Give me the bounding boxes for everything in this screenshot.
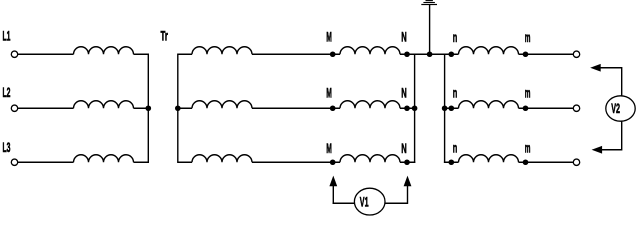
wire star-point bus xyxy=(147,54,149,163)
ground xyxy=(421,1,437,55)
inductor L2 line winding xyxy=(74,101,134,108)
svg-text:M: M xyxy=(326,29,332,45)
terminal L2 xyxy=(11,105,17,111)
svg-text:N: N xyxy=(401,140,407,156)
wire xyxy=(400,107,415,109)
transformer Tr winding phase 2 xyxy=(192,101,252,108)
transformer Tr tapped section M-N phase 1 xyxy=(340,47,400,55)
svg-text:M: M xyxy=(326,140,332,156)
node N phase 2 xyxy=(404,105,410,111)
inductor L3 line winding xyxy=(74,155,134,162)
node m phase 2 xyxy=(523,105,529,111)
wire N bus xyxy=(414,54,416,163)
wire xyxy=(407,186,409,204)
inductor secondary winding n-m phase 1 xyxy=(459,47,519,55)
svg-text:m: m xyxy=(525,140,531,156)
svg-text:n: n xyxy=(453,29,458,45)
wire xyxy=(519,107,574,109)
svg-text:L2: L2 xyxy=(3,84,11,100)
wire xyxy=(444,161,459,163)
svg-text:n: n xyxy=(453,140,458,156)
svg-text:m: m xyxy=(525,29,531,45)
wire xyxy=(333,202,408,204)
voltmeter V2 xyxy=(606,96,635,121)
wire xyxy=(134,53,150,55)
svg-text:L3: L3 xyxy=(3,139,11,155)
node m phase 1 xyxy=(523,51,529,57)
wire Tr input bus xyxy=(177,54,179,163)
wire xyxy=(600,68,622,150)
node N phase 1 xyxy=(404,51,410,57)
svg-text:n: n xyxy=(453,85,458,101)
arrow V2 probe phase 3 xyxy=(592,146,603,154)
arrow V1 probe at M xyxy=(329,176,337,187)
wire xyxy=(178,107,193,109)
wire xyxy=(178,53,193,55)
wire xyxy=(252,161,340,163)
terminal secondary phase 2 xyxy=(573,105,579,111)
junction n bus xyxy=(442,105,448,111)
wire xyxy=(400,53,459,55)
terminal secondary phase 3 xyxy=(573,159,579,165)
node M phase 2 xyxy=(330,105,336,111)
transformer Tr tapped section M-N phase 2 xyxy=(340,101,400,108)
terminal secondary phase 1 xyxy=(573,51,579,57)
inductor secondary winding n-m phase 3 xyxy=(459,155,519,162)
svg-text:V2: V2 xyxy=(611,100,620,116)
wire xyxy=(18,53,74,55)
node M phase 1 xyxy=(330,51,336,57)
wire xyxy=(18,161,74,163)
wire n bus xyxy=(444,54,446,163)
svg-text:m: m xyxy=(525,85,531,101)
wire xyxy=(18,107,74,109)
svg-text:L1: L1 xyxy=(3,28,11,44)
svg-text:Tr: Tr xyxy=(161,28,169,44)
node n phase 2 xyxy=(449,105,455,111)
node m phase 3 xyxy=(523,159,529,165)
transformer Tr winding phase 1 xyxy=(192,47,252,55)
junction Tr bus xyxy=(175,105,181,111)
junction star point xyxy=(146,105,152,111)
junction ground node xyxy=(427,51,433,57)
svg-text:N: N xyxy=(401,85,407,101)
wire xyxy=(444,107,459,109)
node n phase 1 xyxy=(449,51,455,57)
wire xyxy=(134,107,150,109)
transformer Tr tapped section M-N phase 3 xyxy=(340,155,400,162)
arrow V1 probe at N xyxy=(404,176,412,187)
node N phase 3 xyxy=(404,159,410,165)
terminal L1 xyxy=(11,51,17,57)
wire xyxy=(332,186,334,204)
wire xyxy=(252,53,340,55)
inductor secondary winding n-m phase 2 xyxy=(459,101,519,108)
svg-text:M: M xyxy=(326,85,332,101)
wire xyxy=(400,161,415,163)
arrow V2 probe phase 1 xyxy=(590,64,601,72)
wire xyxy=(178,161,193,163)
transformer Tr winding phase 3 xyxy=(192,155,252,162)
wire xyxy=(519,53,574,55)
svg-text:V1: V1 xyxy=(360,194,369,210)
svg-text:N: N xyxy=(401,29,407,45)
wire xyxy=(134,161,150,163)
node n phase 3 xyxy=(449,159,455,165)
node M phase 3 xyxy=(330,159,336,165)
junction N bus xyxy=(412,105,418,111)
wire xyxy=(252,107,340,109)
voltmeter V1 xyxy=(354,188,385,215)
wire xyxy=(519,161,574,163)
inductor L1 line winding xyxy=(74,47,134,55)
terminal L3 xyxy=(11,159,17,165)
